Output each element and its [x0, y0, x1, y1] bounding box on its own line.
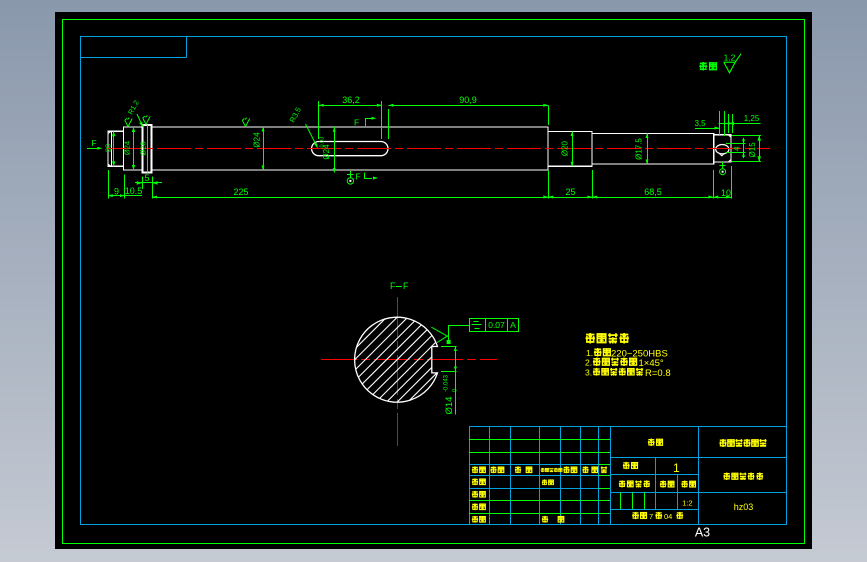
svg-text:1,25: 1,25 — [744, 114, 760, 123]
svg-text:1:2: 1:2 — [682, 499, 692, 508]
svg-text:36,2: 36,2 — [342, 95, 360, 105]
svg-text:hz03: hz03 — [734, 502, 754, 512]
svg-text:0.07: 0.07 — [488, 320, 505, 330]
svg-text:A: A — [510, 320, 516, 330]
svg-text:2.: 2. — [585, 358, 592, 368]
svg-text:10: 10 — [721, 188, 731, 198]
svg-text:Ø28: Ø28 — [139, 141, 148, 155]
svg-text:225: 225 — [233, 187, 248, 197]
svg-text:10.5: 10.5 — [125, 186, 143, 196]
svg-text:F: F — [356, 172, 361, 182]
svg-text:Ø17.5: Ø17.5 — [635, 138, 644, 160]
svg-text:25: 25 — [565, 187, 575, 197]
svg-text:20: 20 — [104, 144, 113, 152]
svg-text:R=0.8: R=0.8 — [645, 368, 671, 379]
svg-text:Ø15: Ø15 — [748, 142, 757, 158]
svg-text:4: 4 — [733, 146, 742, 151]
svg-text:F: F — [390, 281, 396, 291]
svg-text:1.: 1. — [586, 348, 593, 358]
svg-text:1.2: 1.2 — [724, 53, 736, 63]
svg-text:68,5: 68,5 — [644, 187, 662, 197]
svg-text:1: 1 — [673, 461, 680, 475]
svg-text:7: 7 — [649, 512, 653, 521]
svg-text:3,5: 3,5 — [694, 119, 706, 128]
svg-text:Ø24: Ø24 — [123, 141, 132, 155]
svg-text:A3: A3 — [695, 526, 710, 540]
svg-text:Ø24: Ø24 — [253, 132, 262, 148]
svg-text:F: F — [354, 118, 359, 128]
svg-text:-0.03: -0.03 — [320, 137, 326, 150]
svg-text:9: 9 — [114, 187, 119, 197]
svg-text:Ø14: Ø14 — [444, 397, 455, 415]
svg-text:F: F — [403, 281, 409, 291]
svg-text:-0.043: -0.043 — [444, 374, 450, 392]
svg-text:F: F — [92, 138, 97, 148]
svg-text:3.: 3. — [585, 368, 592, 378]
svg-text:90,9: 90,9 — [459, 95, 477, 105]
svg-text:5: 5 — [144, 173, 149, 183]
svg-text:04: 04 — [664, 512, 672, 521]
svg-text:Ø20: Ø20 — [561, 140, 570, 156]
